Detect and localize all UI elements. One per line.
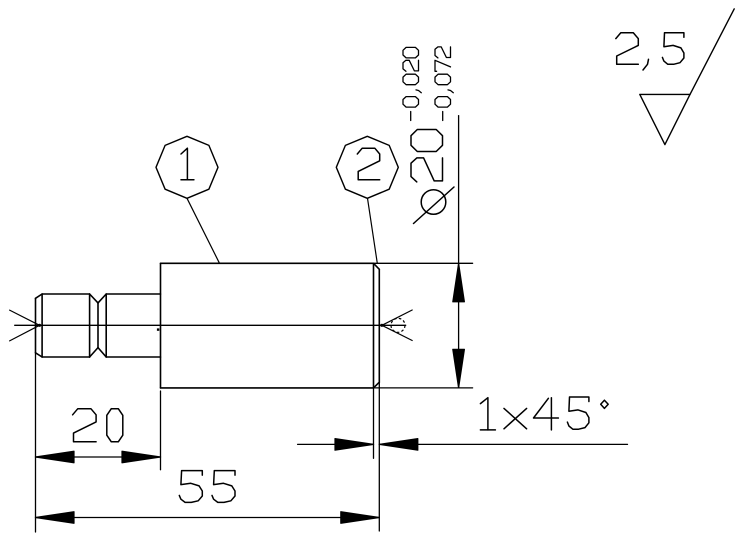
extension line right face [378, 382, 380, 531]
neck section outline [106, 294, 160, 357]
left center-hole mark [10, 310, 42, 341]
balloon callout 2 [336, 136, 398, 198]
chamfer dimension leader lines [298, 439, 628, 451]
diameter text O20 rotated [411, 130, 454, 224]
relief groove [90, 294, 107, 357]
surface roughness value 2,5 [616, 33, 684, 70]
dimension 55 with arrows and text [36, 471, 380, 524]
chamfer text 1x45deg [480, 397, 608, 430]
extension line body left [160, 391, 162, 470]
centerline (shaft axis) [15, 325, 406, 331]
extension line diameter top [374, 262, 473, 264]
tolerance text -0,020 rotated [403, 47, 421, 120]
extension line diameter bottom [374, 387, 473, 389]
extension line chamfer start [373, 388, 375, 458]
right center-hole mark [380, 310, 412, 341]
leader line balloon 2 [368, 198, 378, 263]
extension line left face [35, 353, 37, 532]
main body outline [161, 263, 380, 388]
tolerance text -0,072 rotated [435, 47, 453, 121]
thread section outline [36, 294, 90, 357]
diameter dimension line with arrows [453, 116, 465, 388]
leader line balloon 1 [187, 198, 220, 263]
surface roughness symbol [640, 9, 734, 145]
balloon callout 1 [156, 136, 218, 198]
dimension 20 with arrows and text [36, 409, 161, 463]
